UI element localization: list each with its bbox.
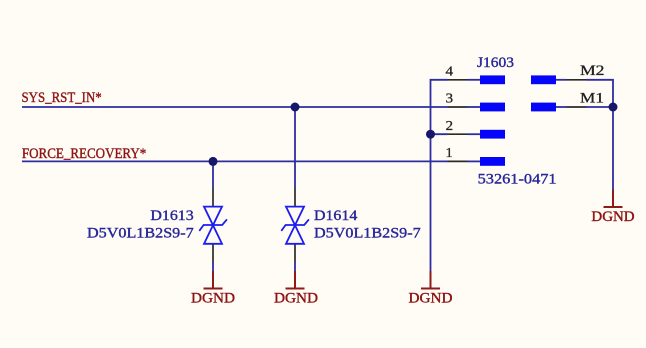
svg-text:3: 3 bbox=[446, 91, 454, 106]
svg-text:M1: M1 bbox=[580, 91, 604, 107]
svg-text:D1613: D1613 bbox=[150, 208, 193, 224]
svg-text:DGND: DGND bbox=[191, 290, 235, 306]
svg-text:1: 1 bbox=[446, 145, 453, 160]
svg-text:D5V0L1B2S9-7: D5V0L1B2S9-7 bbox=[314, 226, 421, 242]
svg-text:FORCE_RECOVERY*: FORCE_RECOVERY* bbox=[22, 146, 146, 162]
svg-text:2: 2 bbox=[446, 118, 454, 133]
svg-text:SYS_RST_IN*: SYS_RST_IN* bbox=[22, 90, 102, 106]
svg-text:DGND: DGND bbox=[274, 290, 318, 306]
svg-text:4: 4 bbox=[446, 64, 454, 79]
svg-text:M2: M2 bbox=[580, 63, 605, 79]
svg-text:53261-0471: 53261-0471 bbox=[478, 172, 557, 188]
svg-text:D1614: D1614 bbox=[314, 208, 358, 224]
svg-text:DGND: DGND bbox=[591, 209, 634, 225]
svg-text:D5V0L1B2S9-7: D5V0L1B2S9-7 bbox=[87, 226, 194, 242]
svg-text:DGND: DGND bbox=[409, 290, 453, 306]
svg-text:J1603: J1603 bbox=[477, 55, 514, 71]
